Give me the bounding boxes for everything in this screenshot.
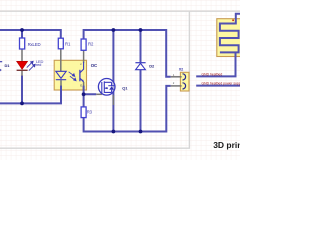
svg-text:red: red — [36, 62, 41, 67]
svg-text:RxLED: RxLED — [28, 42, 41, 47]
svg-text:GND heatbed power supply: GND heatbed power supply — [202, 82, 241, 86]
svg-text:R2: R2 — [88, 42, 94, 47]
svg-text:GND heatbed: GND heatbed — [202, 72, 223, 76]
svg-text:R1: R1 — [65, 42, 71, 47]
svg-text:OC: OC — [91, 63, 98, 68]
svg-text:X2: X2 — [179, 68, 183, 72]
svg-text:E: E — [80, 84, 82, 88]
svg-text:3D printer: 3D printer — [213, 140, 240, 150]
svg-text:R3: R3 — [87, 109, 93, 114]
